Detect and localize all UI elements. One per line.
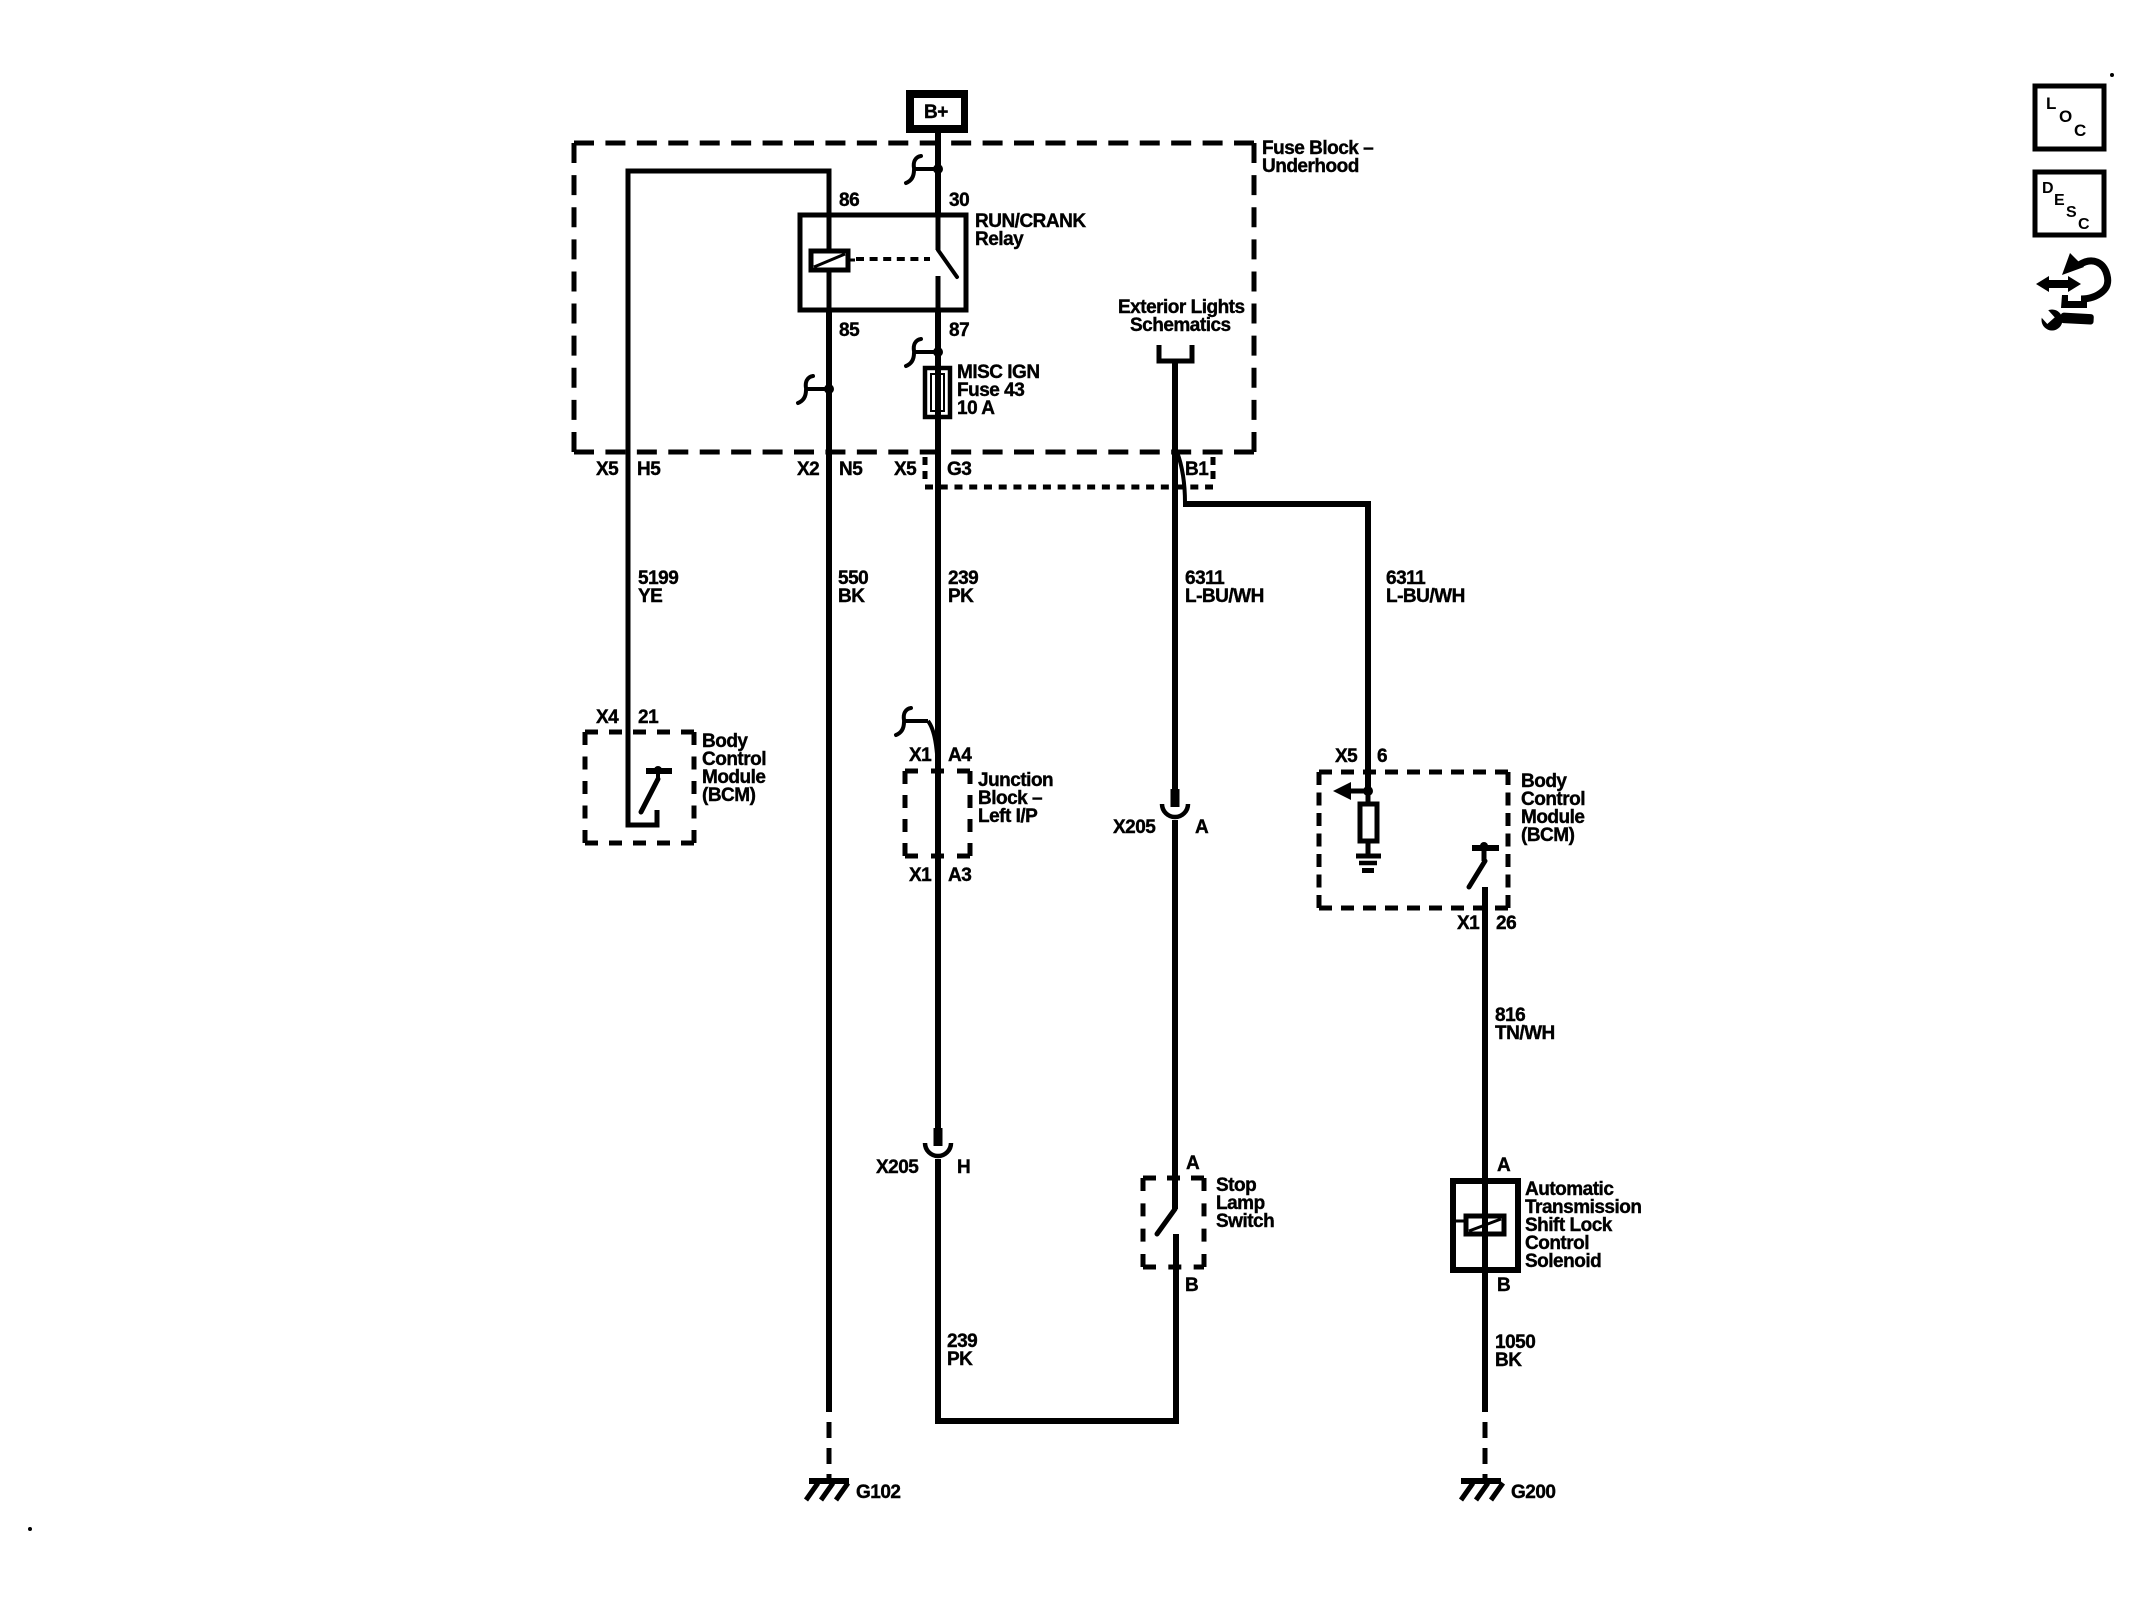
- svg-text:A4: A4: [948, 745, 972, 766]
- wire label 239 PK lower: [947, 1331, 977, 1370]
- wire label 239 PK: [948, 568, 978, 607]
- clip splice on 550 BK: [798, 376, 834, 403]
- wire label 6311 L-BU/WH left: [1185, 568, 1264, 607]
- svg-text:Underhood: Underhood: [1262, 156, 1359, 177]
- svg-text:BK: BK: [1495, 1350, 1522, 1371]
- svg-text:A: A: [1186, 1153, 1200, 1174]
- svg-text:PK: PK: [947, 1349, 973, 1370]
- svg-text:PK: PK: [948, 586, 974, 607]
- connector X205 H: [876, 1128, 970, 1178]
- svg-text:X4: X4: [596, 707, 619, 728]
- svg-text:X5: X5: [1335, 746, 1358, 767]
- svg-text:TN/WH: TN/WH: [1495, 1023, 1555, 1044]
- stray dots: [2110, 73, 2114, 77]
- stop lamp switch dashed box: [1143, 1178, 1204, 1267]
- ground G200: [1461, 1481, 1555, 1503]
- relay coil: [811, 215, 855, 270]
- svg-text:D: D: [2042, 180, 2054, 197]
- DESC icon: [2035, 172, 2104, 235]
- ground G102: [806, 1481, 900, 1503]
- svg-text:A3: A3: [948, 865, 971, 886]
- ground tail G200: [1483, 1422, 1488, 1479]
- wire 239 PK X205 H down and over: [938, 1159, 1176, 1421]
- svg-text:Relay: Relay: [975, 229, 1024, 250]
- junction block label: [978, 770, 1053, 827]
- junction block - left I/P dashed box: [905, 771, 970, 856]
- ground tail G102: [827, 1422, 832, 1479]
- body control module (BCM) left dashed box: [585, 732, 694, 843]
- connector row labels X5 H5 X2 N5 X5 G3 B1: [596, 459, 1209, 480]
- connector X1 A3 labels: [909, 865, 971, 886]
- svg-text:X1: X1: [1457, 913, 1480, 934]
- svg-text:B: B: [1185, 1275, 1198, 1296]
- svg-text:C: C: [2074, 121, 2086, 140]
- svg-text:85: 85: [839, 320, 860, 341]
- wire 550 BK relay pin 85 down: [827, 270, 832, 1412]
- fuse label: [957, 362, 1040, 419]
- svg-text:E: E: [2054, 192, 2065, 209]
- relay coil-contact dashed link: [856, 257, 930, 261]
- off-page reference Exterior Lights Schematics: [1118, 297, 1245, 452]
- svg-text:H5: H5: [637, 459, 661, 480]
- LOC icon: [2035, 86, 2104, 149]
- relay pin labels 86 30 85 87: [839, 190, 969, 341]
- svg-text:10 A: 10 A: [957, 398, 995, 419]
- fuse block label: [1262, 138, 1373, 177]
- svg-text:C: C: [2078, 216, 2090, 233]
- svg-text:N5: N5: [839, 459, 863, 480]
- clip splice on 87 feed: [906, 339, 943, 366]
- connector X1 A4 labels: [909, 745, 972, 766]
- svg-text:B1: B1: [1185, 459, 1209, 480]
- svg-text:O: O: [2059, 107, 2072, 126]
- wire 6311 L-BU/WH branch to BCM X5-6: [1183, 504, 1368, 791]
- BCM internal ground: [1356, 856, 1381, 871]
- svg-text:X205: X205: [876, 1157, 919, 1178]
- BCM left label: [702, 731, 766, 806]
- connector X1 pin 26 labels: [1457, 913, 1516, 934]
- relay RUN/CRANK box: [800, 215, 966, 310]
- wire top loop H5 to relay pin 86: [628, 171, 829, 735]
- clip at junction block X1 A4: [896, 708, 938, 768]
- connector X5 pin 6 labels: [1335, 746, 1387, 767]
- svg-text:X5: X5: [894, 459, 917, 480]
- wire label 816 TN/WH: [1495, 1005, 1555, 1044]
- power symbol B+: [906, 90, 968, 133]
- svg-text:86: 86: [839, 190, 859, 211]
- svg-text:(BCM): (BCM): [1521, 825, 1575, 846]
- svg-text:Left I/P: Left I/P: [978, 806, 1038, 827]
- relay label: [975, 211, 1086, 250]
- svg-text:L: L: [2046, 94, 2056, 113]
- svg-text:X5: X5: [596, 459, 619, 480]
- branch swoop at B1: [1177, 452, 1185, 503]
- clip splice on B+ feed: [906, 156, 943, 183]
- svg-text:A: A: [1497, 1155, 1511, 1176]
- svg-text:Solenoid: Solenoid: [1525, 1251, 1601, 1272]
- fuse block - underhood dashed box: [574, 143, 1254, 452]
- BCM left internal switch: [628, 735, 672, 825]
- svg-text:X1: X1: [909, 865, 932, 886]
- connector X4 pin 21 labels: [596, 707, 659, 728]
- fuse block X5 connector dotted box: [925, 457, 1213, 487]
- svg-text:H: H: [957, 1157, 970, 1178]
- svg-text:6: 6: [1377, 746, 1387, 767]
- BCM pull-up resistor: [1360, 791, 1377, 855]
- svg-text:L-BU/WH: L-BU/WH: [1386, 586, 1465, 607]
- stop lamp switch label: [1216, 1175, 1274, 1232]
- svg-text:BK: BK: [838, 586, 865, 607]
- svg-text:26: 26: [1496, 913, 1516, 934]
- svg-text:Schematics: Schematics: [1130, 315, 1231, 336]
- wire label 6311 L-BU/WH right: [1386, 568, 1465, 607]
- svg-text:B: B: [1497, 1275, 1510, 1296]
- diagnostic arrow-wrench icon: [2036, 253, 2108, 331]
- wire label 5199 YE: [638, 568, 678, 607]
- svg-text:Switch: Switch: [1216, 1211, 1274, 1232]
- svg-text:L-BU/WH: L-BU/WH: [1185, 586, 1264, 607]
- svg-text:X2: X2: [797, 459, 819, 480]
- svg-text:A: A: [1195, 817, 1209, 838]
- wire 239 PK pin 87 to fuse: [935, 311, 941, 368]
- svg-text:87: 87: [949, 320, 969, 341]
- svg-text:S: S: [2066, 204, 2077, 221]
- wire label 550 BK: [838, 568, 868, 607]
- svg-text:B+: B+: [924, 102, 948, 123]
- wire 816 TN/WH BCM to solenoid: [1482, 887, 1488, 1181]
- wire 6311 L-BU/WH B1 down to X205 A: [1172, 452, 1178, 790]
- wire 1050 BK solenoid down: [1482, 1270, 1488, 1412]
- svg-text:YE: YE: [638, 586, 662, 607]
- relay contact 30-87: [938, 215, 957, 311]
- svg-text:(BCM): (BCM): [702, 785, 756, 806]
- svg-text:G200: G200: [1511, 1482, 1555, 1503]
- stop lamp switch blade: [1157, 1209, 1175, 1234]
- wire B+ to relay pin 30: [935, 133, 941, 217]
- wire label 1050 BK: [1495, 1332, 1535, 1371]
- svg-text:X1: X1: [909, 745, 932, 766]
- svg-text:X205: X205: [1113, 817, 1156, 838]
- shift lock control solenoid box: [1453, 1181, 1518, 1270]
- svg-text:21: 21: [638, 707, 659, 728]
- wire 6311 X205 A to stop lamp switch: [1172, 820, 1178, 1209]
- svg-text:G3: G3: [947, 459, 971, 480]
- svg-text:G102: G102: [856, 1482, 900, 1503]
- wire 239 PK fuse down to X205 H: [935, 417, 941, 1129]
- svg-text:30: 30: [949, 190, 969, 211]
- BCM right internal switch: [1469, 842, 1499, 887]
- fuse MISC IGN Fuse 43: [925, 368, 950, 417]
- BCM signal arrow: [1333, 782, 1373, 800]
- connector X205 A: [1113, 789, 1209, 838]
- BCM right label: [1521, 771, 1585, 846]
- solenoid label: [1525, 1179, 1642, 1272]
- body control module (BCM) right dashed box: [1319, 772, 1508, 908]
- solenoid coil: [1456, 1181, 1504, 1270]
